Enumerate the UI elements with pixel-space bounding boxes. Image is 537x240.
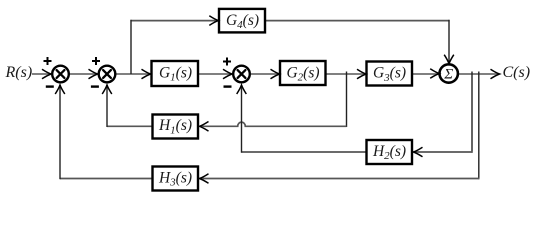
wire top feedforward to G4 xyxy=(130,20,218,22)
arrowhead into S3 xyxy=(223,69,232,79)
wire R(s) to summing junction S1 xyxy=(32,73,50,75)
arrowhead into H1 xyxy=(200,122,209,132)
summing junction S1 xyxy=(52,66,69,83)
wire Sigma to C(s) xyxy=(458,73,498,75)
arrowhead into G2 xyxy=(271,69,280,79)
plus sign S1 xyxy=(44,57,52,65)
svg-text:C(s): C(s) xyxy=(503,64,531,81)
wire H3 output left xyxy=(60,178,152,180)
minus sign S1 xyxy=(46,85,54,87)
wire H2 input xyxy=(414,151,473,153)
wire S1 to S2 xyxy=(69,73,97,75)
block H3 xyxy=(153,167,199,191)
svg-text:G2(s): G2(s) xyxy=(286,64,319,83)
wire S2 to G1 xyxy=(116,73,150,75)
wire H1 output up to S2 xyxy=(106,85,108,127)
summing junction S2 xyxy=(99,66,116,83)
plus sign S3 xyxy=(223,58,231,66)
arrowhead into S2 xyxy=(89,69,98,79)
label R(s) xyxy=(5,64,33,81)
block G1 xyxy=(152,61,199,86)
wire H3 input xyxy=(200,178,480,180)
wire H1 input with hop xyxy=(200,122,347,126)
svg-text:Σ: Σ xyxy=(443,67,453,83)
arrowhead into S3 bottom xyxy=(237,85,247,94)
wire G1 to S3 xyxy=(199,73,231,75)
wire G3 to summing junction Sigma xyxy=(413,73,439,75)
wire H2 output left xyxy=(242,151,367,153)
svg-text:H1(s): H1(s) xyxy=(158,117,192,136)
summing junction S3 xyxy=(233,66,250,83)
arrowhead into G1 xyxy=(142,69,151,79)
wire down into Sigma top xyxy=(448,20,450,63)
arrowhead into Sigma left xyxy=(430,69,439,79)
block G4 xyxy=(219,9,265,33)
wire takeoff after G2 down xyxy=(346,72,348,128)
block G3 xyxy=(367,62,413,86)
wire takeoff down to G4 path xyxy=(130,20,132,74)
wire takeoff A after Sigma down xyxy=(471,72,473,153)
svg-text:R(s): R(s) xyxy=(5,64,33,81)
minus sign S3 xyxy=(224,85,232,87)
arrowhead into S2 bottom xyxy=(102,85,112,94)
wire H3 output up to S1 xyxy=(59,85,61,179)
svg-text:H2(s): H2(s) xyxy=(372,143,406,162)
block G2 xyxy=(280,61,326,85)
block H2 xyxy=(367,140,413,164)
svg-text:G1(s): G1(s) xyxy=(159,64,192,83)
arrowhead into S1 bottom xyxy=(55,85,65,94)
block H1 xyxy=(153,115,199,139)
label C(s) xyxy=(503,64,531,81)
arrowhead into S1 xyxy=(42,69,51,79)
arrowhead into G3 xyxy=(357,69,366,79)
plus sign S2 xyxy=(92,57,100,65)
wire S3 to G2 xyxy=(251,73,279,75)
minus sign S2 xyxy=(91,85,99,87)
svg-text:H3(s): H3(s) xyxy=(158,169,192,188)
wire H2 output up to S3 xyxy=(241,85,243,153)
arrowhead into Sigma top xyxy=(444,55,454,64)
arrowhead into H3 xyxy=(200,174,209,184)
arrowhead into H2 xyxy=(414,147,423,157)
arrowhead into G4 xyxy=(209,16,218,26)
summing junction Sigma U1 xyxy=(440,64,458,82)
svg-text:G4(s): G4(s) xyxy=(226,12,259,31)
svg-text:G3(s): G3(s) xyxy=(373,65,406,84)
wire G2 to G3 xyxy=(326,73,366,75)
arrowhead to C(s) xyxy=(491,69,500,79)
wire G4 to corner above Sigma xyxy=(266,20,450,22)
wire takeoff B after Sigma down xyxy=(478,72,480,180)
wire H1 output left xyxy=(107,125,152,127)
